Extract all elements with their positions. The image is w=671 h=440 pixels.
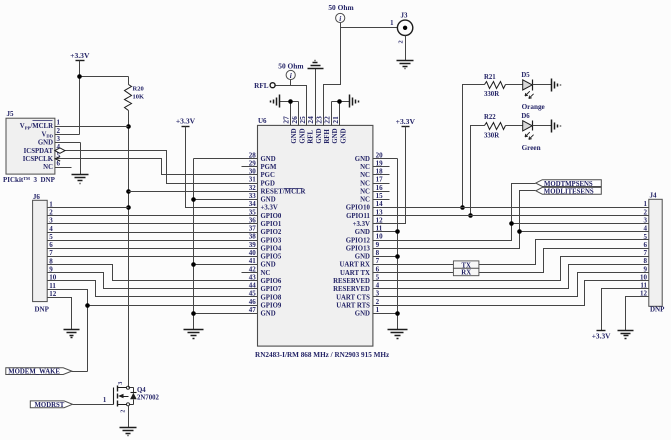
U6 pin 38 label	[249, 233, 282, 245]
J5 pin1 VPP/MCLR overline	[33, 120, 53, 122]
wire U6 RESERVED(5) to J4 pin7	[373, 257, 649, 281]
wire J6 pin8 to U6 GPIO6	[48, 265, 258, 281]
node +3.3V/R20 junction	[77, 74, 82, 79]
wire U6 UART RTS to J4 pin10	[373, 281, 649, 306]
svg-text:GPIO11: GPIO11	[346, 213, 370, 220]
connector J3 (RF coax)	[397, 11, 412, 43]
svg-text:GND: GND	[355, 156, 370, 163]
svg-text:32: 32	[249, 184, 257, 192]
U6 pin 5 label	[333, 273, 379, 285]
svg-text:UART TX: UART TX	[340, 270, 370, 277]
svg-text:Green: Green	[522, 144, 541, 152]
svg-text:RX: RX	[461, 270, 471, 277]
J5 pin 6 label	[43, 160, 60, 172]
U6 pin 41 label	[249, 257, 276, 269]
impedance marker 50 Ohm (RFL)	[278, 61, 304, 85]
svg-text:R21: R21	[484, 74, 496, 81]
svg-text:1: 1	[103, 397, 107, 404]
wire J5 pin5 ICSPCLK to U6 PGC	[55, 159, 258, 175]
svg-text:R22: R22	[484, 114, 496, 121]
svg-text:39: 39	[249, 241, 257, 249]
svg-text:34: 34	[249, 200, 257, 208]
U6 pin 2 label	[336, 298, 379, 310]
label box RX	[453, 268, 479, 276]
svg-text:NC: NC	[360, 188, 370, 195]
J4 pin 8 number	[644, 257, 648, 265]
svg-text:28: 28	[249, 151, 257, 159]
wire U6 RESERVED(4) to J4 pin8	[373, 265, 649, 289]
node MODLITESENS junction	[517, 229, 522, 234]
svg-text:Orange: Orange	[522, 103, 545, 111]
svg-text:J3: J3	[401, 11, 409, 19]
svg-text:3: 3	[118, 382, 124, 385]
wire J6 pin11 to U6 GPIO9 / MODEM_WAKE	[48, 290, 258, 372]
U6 pin 18 NC stub	[373, 174, 390, 176]
J4 pin 7 number	[644, 249, 648, 257]
svg-text:GND: GND	[355, 311, 370, 318]
U6 top pin 27 label	[282, 116, 299, 144]
J6 pin 2 number	[49, 209, 53, 217]
svg-text:50 Ohm: 50 Ohm	[278, 61, 304, 70]
wire U6 pin26 GND stub up	[298, 102, 300, 126]
J5 pin 1 label	[20, 119, 61, 131]
wire J6 pin7 to U6 GPIO5	[48, 256, 258, 258]
svg-text:GND: GND	[261, 156, 276, 163]
svg-text:40: 40	[249, 249, 257, 257]
J6 pin 6 number	[49, 241, 53, 249]
wire MCLR vertical (R20 to Q4 drain)	[128, 111, 130, 388]
svg-text:8: 8	[644, 257, 648, 265]
svg-text:GPIO1: GPIO1	[261, 221, 282, 228]
ground (D6, sideways)	[552, 120, 561, 133]
svg-text:2: 2	[121, 410, 127, 413]
U6 pin 35 label	[249, 208, 282, 220]
J6 pin 11 number	[49, 282, 56, 290]
wire J5 pin1 to MCLR	[55, 126, 129, 128]
wire U6 pin27 GND stub up	[290, 102, 292, 126]
svg-text:2: 2	[376, 298, 380, 306]
svg-text:9: 9	[644, 265, 648, 273]
svg-text:2: 2	[644, 208, 648, 216]
U6 top pin 25 label	[298, 116, 315, 144]
U6 pin 37 label	[249, 225, 282, 237]
svg-text:NC: NC	[360, 172, 370, 179]
svg-text:RESERVED: RESERVED	[333, 278, 370, 285]
LED D5	[521, 72, 544, 111]
op-amp U6 RN2483 module body	[255, 117, 390, 359]
U6 pin 6 label	[340, 265, 380, 277]
svg-text:GND: GND	[355, 254, 370, 261]
J5 pin 3 label	[38, 135, 61, 147]
svg-text:+3.3V: +3.3V	[396, 117, 416, 126]
J4 pin 3 number	[644, 216, 648, 224]
wire U6 pin41 GND	[194, 264, 258, 266]
wire J6 pin4 to U6 GPIO2	[48, 232, 258, 234]
svg-text:37: 37	[249, 225, 257, 233]
svg-text:NC: NC	[360, 180, 370, 187]
svg-text:PGC: PGC	[261, 172, 275, 179]
wire D6 cathode to ground	[533, 125, 552, 127]
svg-text:GPIO10: GPIO10	[346, 205, 371, 212]
wire MODTMPSENS to GPIO12 net	[512, 184, 536, 224]
svg-text:RFL: RFL	[254, 82, 269, 90]
svg-text:35: 35	[249, 208, 257, 216]
J5 pin 5 label	[23, 151, 61, 163]
svg-text:+3.3V: +3.3V	[70, 51, 90, 60]
svg-text:UART RTS: UART RTS	[336, 302, 370, 309]
wire J5 pin4 ICSPDAT to U6 PGD	[55, 151, 258, 184]
svg-text:50 Ohm: 50 Ohm	[328, 3, 354, 12]
svg-text:+3.3V: +3.3V	[353, 221, 370, 228]
wire J6 pin3 to U6 GPIO1	[48, 223, 258, 225]
svg-text:GPIO2: GPIO2	[261, 229, 282, 236]
U6 pin 16 NC stub	[373, 191, 390, 193]
svg-text:J4: J4	[650, 192, 658, 200]
U6 top pin 21 label	[331, 116, 348, 144]
connector J5 (PICkit header)	[3, 110, 56, 184]
U6 pin 11 label	[355, 225, 383, 237]
svg-text:GND: GND	[38, 140, 53, 147]
svg-text:36: 36	[249, 216, 257, 224]
wire U6 pin20 GND to right bus	[373, 159, 398, 330]
svg-text:29: 29	[249, 159, 257, 167]
U6 pin 36 label	[249, 216, 282, 228]
svg-text:ICSPDAT: ICSPDAT	[24, 148, 54, 155]
wire RFL: U6 pin25 to terminal	[254, 82, 306, 126]
U6 pin42 NC stub	[242, 272, 258, 274]
wire J6 pin5 to U6 GPIO3	[48, 240, 258, 242]
svg-text:2N7002: 2N7002	[137, 395, 160, 402]
svg-text:GPIO0: GPIO0	[261, 213, 282, 220]
wire U6 pin28 GND to bus	[194, 158, 258, 160]
svg-text:10K: 10K	[133, 94, 145, 101]
svg-text:GPIO3: GPIO3	[261, 237, 282, 244]
J6 pin 8 number	[49, 257, 53, 265]
svg-text:4: 4	[49, 225, 53, 233]
power +3.3V (U6 pin12)	[396, 117, 416, 127]
U6 pin 7 label	[339, 257, 379, 269]
svg-text:RFH: RFH	[324, 129, 331, 144]
transistor Q4 2N7002	[114, 382, 160, 413]
svg-text:MODEM_WAKE: MODEM_WAKE	[8, 369, 60, 376]
U6 pin 15 NC stub	[373, 199, 390, 201]
wire U6 pin33 GND	[194, 199, 258, 201]
U6 pin 9 label	[346, 241, 380, 253]
ground (J3 shield)	[397, 61, 414, 69]
U6 pin 14 label	[346, 200, 383, 212]
node GPIO11/R22	[468, 213, 473, 218]
node GPIO9/MODEM_WAKE	[85, 303, 90, 308]
U6 pin 12 label	[353, 216, 383, 228]
svg-text:11: 11	[49, 282, 56, 290]
node bus/pin11	[395, 229, 400, 234]
U6 pin 42 label	[249, 265, 271, 277]
U6 pin 13 label	[346, 208, 383, 220]
U6 pin 43 label	[249, 273, 282, 285]
connector J6 (DNP header)	[33, 193, 50, 313]
U6 pin 44 label	[249, 282, 282, 294]
node MCLR/J6 pin1	[126, 205, 131, 210]
U6 top pin 24 label	[306, 116, 323, 144]
svg-text:330R: 330R	[484, 133, 499, 140]
net flag MODRST	[30, 401, 72, 409]
J4 pin 12 number	[640, 290, 648, 298]
svg-text:1: 1	[376, 306, 380, 314]
U6 top pin 26 label	[290, 116, 307, 144]
svg-text:DNP: DNP	[35, 305, 50, 313]
svg-text:GND: GND	[332, 128, 339, 143]
wire U6 UART RX to J4 pin5	[373, 240, 649, 265]
svg-text:RFL: RFL	[308, 130, 315, 144]
U6 pin 8 label	[355, 249, 380, 261]
wire J4 pin11 to +3.3V	[602, 289, 649, 331]
wire J6 pin2 to U6 GPIO0	[48, 215, 258, 217]
node MCLR/U6 pin32	[126, 189, 131, 194]
wire J3 pin2 to ground	[405, 36, 407, 61]
svg-text:GND: GND	[355, 229, 370, 236]
svg-text:NC: NC	[360, 164, 370, 171]
ground (RF right, sideways)	[350, 95, 359, 108]
svg-text:46: 46	[249, 298, 257, 306]
svg-text:5: 5	[49, 233, 53, 241]
node bus/pin33	[191, 197, 196, 202]
J6 pin 9 number	[49, 266, 53, 274]
svg-text:DNP: DNP	[650, 306, 665, 314]
J4 pin 5 number	[644, 233, 648, 241]
wire U6 pin22 GND stub up	[331, 102, 333, 126]
J4 pin 11 number	[640, 282, 647, 290]
net flag MODTMPSENS	[536, 180, 602, 188]
svg-text:GND: GND	[299, 128, 306, 143]
J4 pin 9 number	[644, 265, 648, 273]
svg-text:RESET/MCLR: RESET/MCLR	[261, 188, 306, 195]
U6 pin29 PGM stub	[242, 166, 258, 168]
ground (left GND bus)	[184, 330, 204, 339]
svg-text:43: 43	[249, 273, 257, 281]
svg-text:5: 5	[644, 233, 648, 241]
U6 pin 18 label	[360, 168, 383, 180]
svg-text:D5: D5	[521, 72, 530, 79]
wire U6 pin32 RESET/MCLR	[129, 191, 258, 193]
svg-text:2: 2	[398, 40, 405, 43]
node bus/pin41	[191, 262, 196, 267]
power +3.3V (U6 pin34)	[176, 117, 196, 127]
wire GND pins 26/27 to left ground	[280, 101, 299, 103]
wire J6 pin10 to U6 GPIO8	[48, 281, 258, 297]
svg-text:30: 30	[249, 168, 257, 176]
svg-text:15: 15	[376, 192, 384, 200]
wire +3.3V down to J5 pin2	[55, 61, 80, 135]
wire U6 pin12 to +3.3V	[373, 127, 406, 224]
wire J4 pin12 to ground	[626, 297, 649, 331]
svg-text:PGM: PGM	[261, 164, 277, 171]
node MODTMPSENS junction	[509, 221, 514, 226]
svg-text:RESERVED: RESERVED	[333, 286, 370, 293]
svg-text:9: 9	[376, 241, 380, 249]
wire U6 UART CTS to J4 pin9	[373, 273, 649, 297]
wire J5 pin6 NC stub	[55, 167, 72, 169]
svg-text:GND: GND	[291, 128, 298, 143]
svg-text:+3.3V: +3.3V	[176, 117, 196, 126]
J4 pin 1 number	[644, 200, 648, 208]
J4 pin 2 number	[644, 208, 648, 216]
wire U6 pin21 GND stub up	[339, 102, 341, 126]
wire MODRST to Q4 gate	[73, 397, 114, 405]
ground (RF top, inverted)	[308, 61, 324, 69]
svg-text:10: 10	[376, 233, 384, 241]
svg-text:31: 31	[249, 176, 257, 184]
wire J6 pin12 to ground	[48, 298, 72, 330]
svg-text:10: 10	[640, 273, 648, 281]
U6 top pin 22 label	[323, 116, 340, 144]
node bus/pin1	[395, 311, 400, 316]
U6 pin 34 label	[249, 200, 278, 212]
svg-text:Q4: Q4	[137, 387, 146, 394]
U6 pin 19 label	[360, 159, 383, 171]
U6 pin 28 label	[249, 151, 276, 163]
U6 pin 30 label	[249, 168, 275, 180]
wire U6 pin8 GND	[373, 256, 398, 258]
svg-text:GND: GND	[316, 128, 323, 143]
wire U6 GPIO12 to J4 pin3	[373, 224, 649, 241]
net flag MODEM_WAKE	[6, 368, 72, 376]
LED D6	[521, 113, 540, 152]
J6 pin 4 number	[49, 225, 53, 233]
svg-text:GPIO9: GPIO9	[261, 302, 282, 309]
wire R22 to D6	[506, 125, 523, 127]
wire U6 pin11 GND	[373, 231, 398, 233]
svg-text:NC: NC	[360, 197, 370, 204]
svg-text:GND: GND	[261, 197, 276, 204]
U6 pin 45 label	[249, 290, 282, 302]
resistor R20	[125, 85, 145, 111]
svg-text:GPIO4: GPIO4	[261, 245, 282, 252]
J6 pin 5 number	[49, 233, 53, 241]
svg-text:+3.3V: +3.3V	[592, 331, 611, 340]
svg-text:i: i	[339, 15, 341, 23]
svg-text:7: 7	[644, 249, 648, 257]
svg-text:8: 8	[376, 249, 380, 257]
wire R21 to D5	[506, 84, 523, 86]
node MCLR/J5 pin1	[126, 124, 131, 129]
svg-text:J6: J6	[33, 193, 41, 201]
svg-text:NC: NC	[261, 270, 271, 277]
svg-text:R20: R20	[133, 86, 144, 93]
U6 pin 1 label	[355, 306, 380, 318]
svg-text:GPIO12: GPIO12	[346, 237, 371, 244]
power +3.3V (J4 pin11, inverted)	[592, 331, 611, 341]
svg-text:12: 12	[49, 290, 57, 298]
U6 pin 32 label	[249, 184, 306, 196]
U6 top pin 23 label	[314, 116, 331, 144]
ground (right GND bus)	[388, 330, 408, 339]
wire U6 UART TX to J4 pin6	[373, 249, 649, 273]
svg-text:GND: GND	[340, 128, 347, 143]
node pin27 gnd	[288, 99, 293, 104]
U6 pin 3 label	[336, 290, 380, 302]
ground (J4 pin12)	[618, 331, 634, 339]
svg-text:4: 4	[644, 225, 648, 233]
svg-text:GPIO5: GPIO5	[261, 254, 282, 261]
svg-text:i: i	[290, 72, 292, 80]
ground (J5 pin3)	[72, 175, 89, 184]
wire RFH: U6 pin23 up and over to J3	[324, 28, 341, 126]
svg-text:NC: NC	[43, 164, 53, 171]
svg-text:D6: D6	[521, 113, 530, 120]
svg-text:UART RX: UART RX	[339, 262, 370, 269]
node bus/pin47	[191, 311, 196, 316]
ground (D5, sideways)	[552, 79, 561, 92]
J6 pin 1 number	[49, 200, 53, 208]
svg-text:17: 17	[376, 176, 384, 184]
svg-text:7: 7	[376, 257, 380, 265]
svg-text:MODLITESENS: MODLITESENS	[544, 189, 594, 196]
svg-text:GPIO8: GPIO8	[261, 294, 282, 301]
ground (RF left, sideways)	[271, 95, 280, 108]
J5 pin 2 label	[41, 127, 60, 139]
ground (J6 pin12)	[64, 330, 80, 338]
wire GND pins 21/22 to right ground	[332, 101, 350, 103]
label box TX	[453, 261, 479, 269]
J4 pin 10 number	[640, 273, 648, 281]
svg-text:16: 16	[376, 184, 384, 192]
wire J5 pin3 GND	[55, 143, 81, 175]
wire +3.3V to U6 pin34	[186, 127, 258, 208]
wire D5 cathode to ground	[533, 84, 552, 86]
svg-text:42: 42	[249, 265, 257, 273]
U6 pin 17 label	[360, 176, 383, 188]
wire U6 GPIO11 to J4 pin2	[373, 215, 649, 217]
wire MODLITESENS to GPIO13 net	[520, 191, 536, 232]
U6 pin 39 label	[249, 241, 282, 253]
U6 pin 40 label	[249, 249, 282, 261]
U6 pin 19 NC stub	[373, 166, 390, 168]
wire GND bus left vertical	[193, 159, 195, 330]
J6 pin 3 number	[49, 217, 53, 225]
wire J6 pin6 to U6 GPIO4	[48, 248, 258, 250]
U6 pin 15 label	[360, 192, 383, 204]
wire J6 pin1 to MCLR	[48, 207, 129, 209]
wire R22 branch from GPIO11	[471, 126, 485, 216]
svg-text:41: 41	[249, 257, 257, 265]
U6 pin 10 label	[346, 233, 383, 245]
U6 pin 47 label	[249, 306, 276, 318]
wire U6 GPIO10 to J4 pin1	[373, 207, 649, 209]
pin arrow ICSPDAT	[55, 148, 65, 153]
svg-text:GPIO13: GPIO13	[346, 245, 371, 252]
wire Q4 source to ground	[128, 406, 130, 428]
svg-text:330R: 330R	[484, 91, 499, 98]
wire MODEM_WAKE to vertical	[72, 371, 88, 373]
svg-text:MODRST: MODRST	[35, 402, 65, 409]
connector J4 (DNP header)	[649, 192, 665, 314]
svg-text:45: 45	[249, 290, 257, 298]
wire U6 GPIO13 to J4 pin4	[373, 232, 649, 249]
svg-text:1: 1	[57, 119, 61, 127]
wire U6 pin24 GND stub up	[315, 69, 317, 126]
wire U6 pin47 GND	[194, 313, 258, 315]
svg-text:+3.3V: +3.3V	[261, 205, 278, 212]
U6 pin 17 NC stub	[373, 183, 390, 185]
svg-text:GND: GND	[261, 311, 276, 318]
svg-text:6: 6	[644, 241, 648, 249]
svg-text:3: 3	[57, 135, 61, 143]
node GPIO10/R21	[460, 205, 465, 210]
pin arrow ICSPCLK	[55, 157, 60, 161]
svg-text:MODTMPSENS: MODTMPSENS	[544, 181, 593, 188]
net flag MODLITESENS	[536, 187, 602, 195]
ground (Q4 source)	[120, 428, 137, 436]
